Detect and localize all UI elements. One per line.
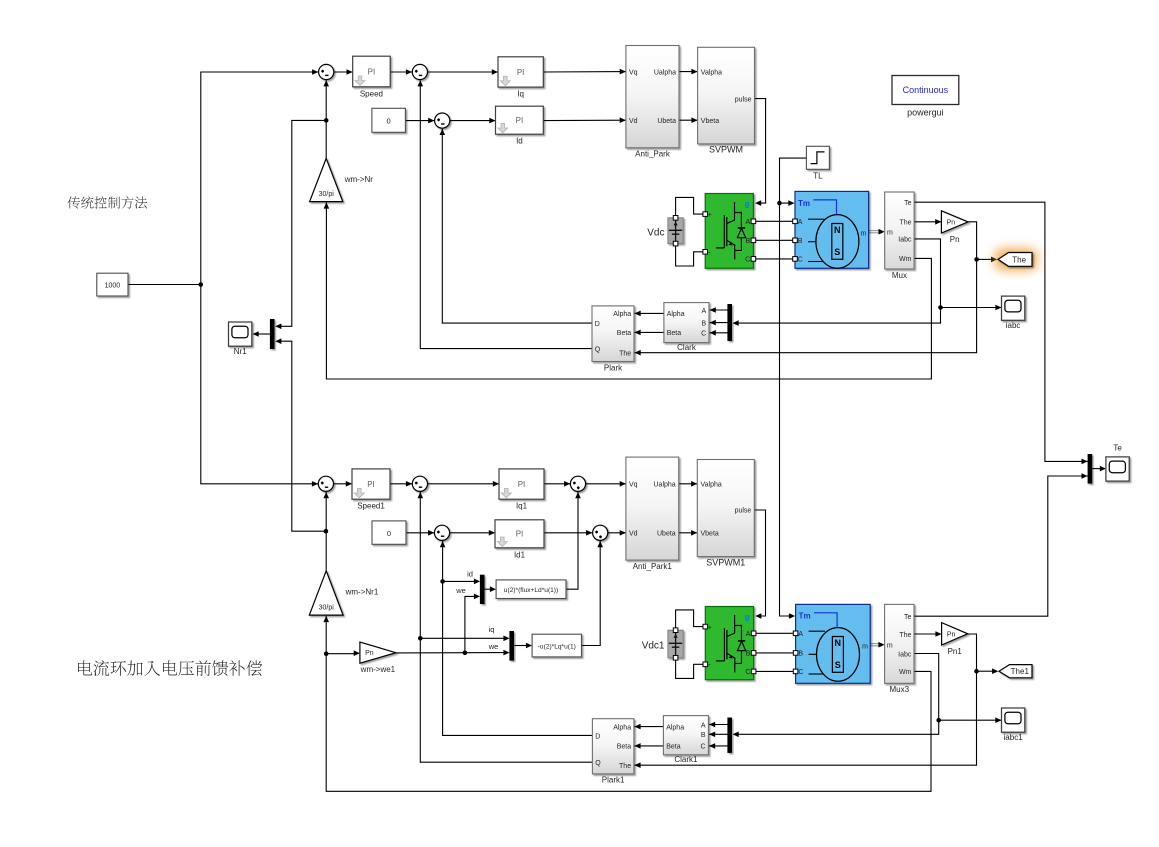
- svg-text:Alpha: Alpha: [613, 724, 631, 731]
- svg-text:Alpha: Alpha: [613, 311, 631, 318]
- svg-text:Vbeta: Vbeta: [701, 118, 719, 125]
- svg-text:PI: PI: [367, 480, 375, 489]
- svg-text:wm->we1: wm->we1: [360, 665, 396, 674]
- svg-text:The: The: [619, 350, 631, 357]
- svg-text:Id: Id: [516, 137, 523, 146]
- svg-text:Mux: Mux: [892, 271, 907, 280]
- svg-text:SVPWM: SVPWM: [709, 145, 743, 155]
- svg-text:1000: 1000: [105, 283, 121, 290]
- svg-text:Ubeta: Ubeta: [657, 118, 676, 125]
- svg-text:Vdc: Vdc: [647, 227, 664, 238]
- svg-text:The: The: [1012, 255, 1026, 264]
- svg-text:Valpha: Valpha: [701, 69, 722, 76]
- svg-text:Te: Te: [904, 614, 912, 621]
- svg-text:A: A: [702, 308, 707, 315]
- svg-text:N: N: [835, 638, 842, 648]
- svg-text:The1: The1: [1011, 667, 1030, 676]
- svg-text:Id1: Id1: [514, 550, 526, 559]
- svg-text:Anti_Park1: Anti_Park1: [633, 562, 673, 571]
- svg-text:Alpha: Alpha: [667, 311, 685, 318]
- svg-text:C: C: [745, 257, 750, 264]
- svg-text:-: -: [708, 247, 711, 256]
- svg-text:u(2)*(flux+Ld*u(1)): u(2)*(flux+Ld*u(1)): [504, 587, 558, 594]
- svg-text:Nr1: Nr1: [234, 347, 247, 356]
- svg-text:Beta: Beta: [617, 330, 632, 337]
- svg-text:Clark: Clark: [677, 343, 697, 352]
- svg-text:PI: PI: [516, 116, 524, 125]
- svg-text:C: C: [701, 331, 706, 338]
- svg-text:Q: Q: [595, 760, 601, 767]
- svg-text:TL: TL: [813, 172, 823, 181]
- svg-text:Vq: Vq: [629, 69, 638, 76]
- svg-text:Vbeta: Vbeta: [701, 531, 719, 538]
- svg-text:A: A: [798, 631, 803, 638]
- svg-text:PI: PI: [518, 480, 526, 489]
- svg-text:Pn: Pn: [947, 631, 956, 638]
- svg-text:Tm: Tm: [799, 612, 811, 621]
- svg-text:m: m: [887, 643, 893, 650]
- svg-text:The: The: [899, 632, 911, 639]
- svg-text:PI: PI: [368, 67, 376, 76]
- svg-text:B: B: [798, 651, 803, 658]
- svg-text:wm->Nr: wm->Nr: [344, 175, 374, 184]
- svg-text:Valpha: Valpha: [701, 482, 722, 489]
- svg-text:Beta: Beta: [667, 330, 682, 337]
- svg-text:C: C: [701, 744, 706, 751]
- svg-text:Tm: Tm: [798, 199, 810, 208]
- svg-text:Beta: Beta: [666, 744, 681, 751]
- svg-text:pulse: pulse: [735, 96, 752, 103]
- svg-text:Pn: Pn: [950, 235, 960, 244]
- svg-text:SVPWM1: SVPWM1: [706, 557, 745, 567]
- svg-text:N: N: [834, 225, 841, 235]
- svg-text:S: S: [834, 247, 840, 257]
- svg-text:C: C: [798, 257, 803, 264]
- svg-text:+: +: [708, 624, 712, 631]
- svg-text:A: A: [746, 219, 751, 226]
- svg-text:Iq: Iq: [517, 90, 524, 99]
- svg-text:B: B: [798, 238, 803, 245]
- svg-text:we: we: [455, 586, 466, 595]
- svg-text:pulse: pulse: [735, 508, 752, 515]
- svg-text:The: The: [619, 763, 631, 770]
- svg-text:-u(2)*Lq*u(1): -u(2)*Lq*u(1): [538, 644, 576, 651]
- svg-text:Iabc: Iabc: [898, 651, 912, 658]
- svg-text:m: m: [862, 643, 868, 650]
- svg-text:Te: Te: [904, 200, 912, 207]
- svg-text:wm->Nr1: wm->Nr1: [345, 588, 379, 597]
- svg-text:m: m: [861, 230, 867, 237]
- svg-text:iq: iq: [489, 625, 495, 634]
- svg-text:Pn: Pn: [947, 219, 956, 226]
- svg-text:C: C: [798, 669, 803, 676]
- svg-text:0: 0: [387, 529, 391, 538]
- svg-text:Vd: Vd: [629, 531, 638, 538]
- svg-text:g: g: [745, 612, 750, 621]
- svg-text:PI: PI: [516, 530, 524, 539]
- svg-text:Te: Te: [1113, 443, 1122, 452]
- svg-text:A: A: [701, 722, 706, 729]
- svg-text:Ualpha: Ualpha: [654, 482, 676, 489]
- svg-text:Continuous: Continuous: [903, 85, 949, 95]
- svg-text:30/pi: 30/pi: [319, 605, 335, 612]
- svg-text:Pn1: Pn1: [948, 647, 963, 656]
- svg-text:A: A: [746, 631, 751, 638]
- svg-text:B: B: [702, 320, 707, 327]
- svg-text:id: id: [467, 570, 473, 579]
- svg-text:Ubeta: Ubeta: [657, 531, 676, 538]
- svg-text:Wm: Wm: [899, 669, 912, 676]
- svg-text:Speed: Speed: [360, 89, 383, 98]
- svg-text:iabc1: iabc1: [1004, 733, 1024, 742]
- svg-text:+: +: [708, 212, 712, 219]
- svg-text:Clark1: Clark1: [674, 755, 698, 764]
- svg-text:Plark: Plark: [604, 363, 623, 372]
- svg-text:Alpha: Alpha: [666, 724, 684, 731]
- svg-text:30/pi: 30/pi: [319, 191, 335, 198]
- svg-text:S: S: [835, 660, 841, 670]
- svg-text:Vd: Vd: [629, 118, 638, 125]
- svg-text:Wm: Wm: [899, 256, 912, 263]
- svg-text:Ualpha: Ualpha: [654, 69, 676, 76]
- svg-text:Beta: Beta: [617, 744, 632, 751]
- svg-text:-: -: [708, 660, 711, 669]
- svg-text:The: The: [899, 219, 911, 226]
- svg-text:Iq1: Iq1: [516, 502, 528, 511]
- svg-text:Anti_Park: Anti_Park: [635, 150, 671, 159]
- svg-text:we: we: [488, 642, 499, 651]
- svg-text:Q: Q: [595, 347, 601, 354]
- svg-text:0: 0: [387, 117, 391, 126]
- svg-text:g: g: [745, 200, 750, 209]
- svg-text:D: D: [595, 321, 600, 328]
- svg-text:powergui: powergui: [907, 108, 944, 118]
- svg-text:B: B: [701, 732, 706, 739]
- svg-text:B: B: [746, 651, 751, 658]
- svg-text:iabc: iabc: [1006, 321, 1021, 330]
- svg-text:Mux3: Mux3: [890, 685, 910, 694]
- svg-text:Speed1: Speed1: [357, 502, 385, 511]
- svg-text:Plark1: Plark1: [602, 776, 625, 785]
- svg-text:B: B: [746, 238, 751, 245]
- svg-text:Vq: Vq: [629, 482, 638, 489]
- svg-text:A: A: [798, 219, 803, 226]
- svg-text:C: C: [745, 669, 750, 676]
- svg-text:Iabc: Iabc: [898, 237, 912, 244]
- svg-text:m: m: [887, 230, 893, 237]
- svg-text:Pn: Pn: [365, 650, 374, 657]
- svg-text:Vdc1: Vdc1: [642, 641, 665, 652]
- svg-text:D: D: [595, 733, 600, 740]
- svg-text:PI: PI: [517, 68, 525, 77]
